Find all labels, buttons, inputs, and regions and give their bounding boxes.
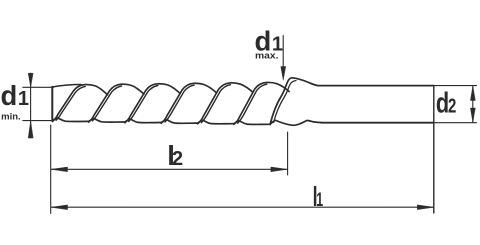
d2 top extension line [434,85,477,87]
spiral flute edge 3 double line [129,86,158,122]
d1 min dimension line [30,73,32,138]
first crest stub [52,85,81,88]
spiral flute edge 1 double line [56,86,85,120]
shank bottom edge [321,122,434,124]
d2 dimension line [472,86,474,122]
spiral bottom outline [52,118,322,125]
l2 dimension line [51,168,287,170]
d1 min bottom extension line [23,120,54,122]
d1 max leader line [282,36,284,68]
d1 max leader arrowhead [281,67,286,81]
svg-text:max.: max. [255,51,279,61]
d2 bottom extension line [434,122,477,124]
l2 right extension line [287,132,289,175]
spiral flute edge 5 double line [201,85,230,123]
d2 bottom arrowhead [470,108,475,122]
l1 dimension line [51,206,434,208]
shank end face / l1 extension line [433,86,435,213]
d1 min top extension line [23,86,54,88]
spiral flute edge 4 [161,83,216,123]
spiral flute edge 6 [234,82,289,124]
spiral flute edge 4 double line [165,85,194,122]
spiral flute edge 2 [89,84,144,122]
d1 min bottom arrowhead [28,121,33,138]
d2 top arrowhead [470,86,475,100]
flute runout edge [270,78,317,125]
l1 left arrowhead [51,205,67,210]
spiral flute edge 3 [125,84,180,123]
l1 right arrowhead [417,205,433,210]
l2 right arrowhead [271,167,287,172]
l2 left arrowhead [51,167,67,172]
extractor tip face [51,87,53,121]
shank top edge [318,85,434,87]
spiral flute edge 5 [198,83,253,124]
l2 left extension line (tool tip) [50,125,52,214]
spiral flute edge 2 double line [92,86,121,121]
d1 min top arrowhead [28,73,33,87]
spiral flute edge 6 double line [238,84,267,123]
flute runout double line [274,81,296,123]
svg-text:min.: min. [1,111,21,121]
spiral flute edge 1 [52,85,107,122]
